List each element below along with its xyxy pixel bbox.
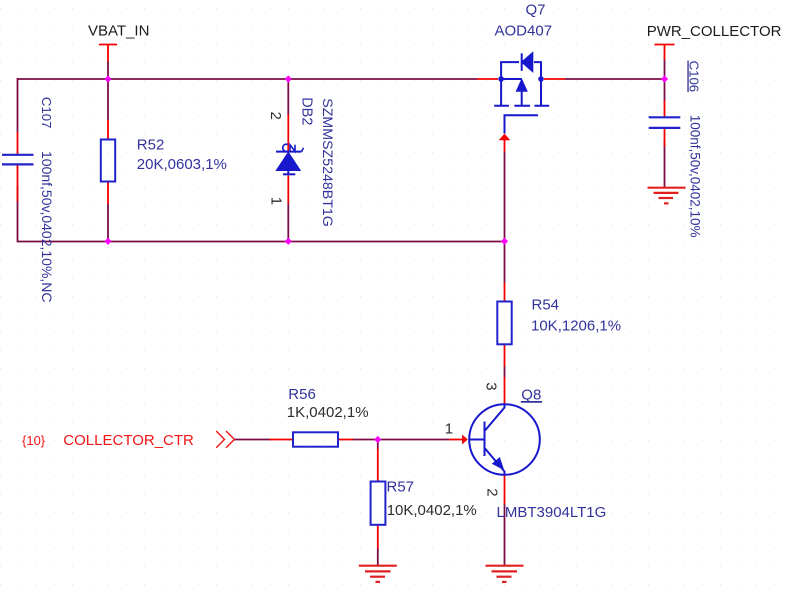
wire R52 column: [107, 79, 109, 241]
svg-text:10K,0402,1%: 10K,0402,1%: [387, 502, 477, 519]
Q8 base lead: [469, 439, 484, 441]
Q8 underline: [521, 401, 542, 403]
svg-text:100nf,50v,0402,10%: 100nf,50v,0402,10%: [688, 115, 703, 238]
node DB2 bottom: [285, 238, 292, 245]
mosfet Q7: [494, 53, 549, 133]
wire Q8 emitter to ground: [504, 504, 506, 566]
pin R54 top: [504, 283, 506, 302]
wire C106 column: [664, 79, 666, 187]
capacitor C107 plates: [2, 155, 34, 165]
pin R57 bottom: [377, 525, 379, 549]
ground at C106: [648, 188, 686, 204]
pin R52 bottom: [107, 182, 109, 205]
svg-text:R52: R52: [137, 136, 165, 153]
ground at R57: [359, 566, 397, 582]
resistor R54: [497, 302, 511, 345]
wire top bus left: [18, 78, 478, 80]
pin Q8 emitter: [504, 475, 506, 504]
zener internal stem: [287, 170, 289, 174]
wire PWR_COLLECTOR stub: [664, 59, 666, 79]
svg-text:2: 2: [483, 488, 500, 496]
svg-text:2: 2: [267, 112, 284, 120]
wire left vertical C107 branch: [17, 78, 19, 242]
Q8 emitter arrow: [492, 457, 504, 470]
svg-text:COLLECTOR_CTR: COLLECTOR_CTR: [63, 432, 194, 449]
Q7 junction dot drain: [538, 76, 544, 82]
resistor R56: [293, 432, 338, 446]
svg-text:1: 1: [445, 420, 453, 437]
svg-text:R57: R57: [387, 478, 415, 495]
svg-text:{10}: {10}: [22, 433, 46, 448]
node gate/R54: [501, 238, 508, 245]
svg-text:Q7: Q7: [526, 2, 546, 19]
node VBAT_IN/R52 top: [104, 75, 111, 82]
pin R52 top: [107, 120, 109, 140]
svg-text:PWR_COLLECTOR: PWR_COLLECTOR: [647, 23, 782, 40]
pin Q7 source: [477, 78, 498, 80]
pin R56 right: [338, 439, 353, 441]
wire R56 to node: [353, 439, 378, 441]
svg-text:SZMMSZ5248BT1G: SZMMSZ5248BT1G: [319, 98, 335, 227]
svg-text:DB2: DB2: [299, 97, 315, 125]
svg-text:100nf,50v,0402,10%,NC: 100nf,50v,0402,10%,NC: [39, 151, 55, 303]
Q7 body-diode cathode bar: [521, 53, 523, 71]
node C106/PWR_COLLECTOR: [661, 75, 668, 82]
resistor R52: [101, 140, 115, 182]
zener cathode bar: [276, 151, 302, 153]
wire top bus right: [565, 78, 665, 80]
wire node to R57: [377, 440, 379, 450]
svg-text:LMBT3904LT1G: LMBT3904LT1G: [497, 504, 607, 521]
Q7 body-diode triangle: [522, 53, 532, 70]
Q7 gate line: [505, 115, 539, 133]
wire node to Q8 base: [378, 439, 450, 441]
svg-text:20K,0603,1%: 20K,0603,1%: [137, 156, 227, 173]
Q7 drain vertical: [540, 79, 542, 106]
wire R57 to ground: [377, 548, 379, 565]
pin R56 left: [270, 439, 294, 441]
wire VBAT_IN stub: [107, 61, 109, 79]
zener N mark: [290, 145, 295, 152]
svg-text:R54: R54: [532, 297, 560, 314]
svg-text:C106: C106: [687, 61, 702, 93]
pin Q7 gate arrow: [504, 139, 506, 152]
zener diode DB2: [276, 144, 304, 174]
pin R54 bottom: [504, 344, 506, 366]
zener triangle: [277, 153, 299, 170]
pin DB2 cathode: [287, 115, 289, 151]
node R56/R57/base: [374, 436, 381, 443]
svg-text:AOD407: AOD407: [495, 22, 553, 39]
wire gate column Q7 to bottom bus: [504, 151, 506, 241]
pin Q8 collector: [504, 377, 506, 404]
ground at Q8: [486, 566, 524, 582]
pin R57 top: [377, 449, 379, 482]
svg-text:C107: C107: [39, 97, 54, 129]
Q8 circle: [469, 404, 540, 475]
PWR_COLLECTOR power tick: [655, 45, 675, 61]
Q8 collector diagonal: [485, 405, 505, 431]
Q7 internal horizontal: [501, 78, 522, 80]
wire port to R56: [234, 439, 270, 441]
resistor R57: [371, 482, 386, 525]
capacitor C106 plates: [649, 117, 681, 128]
node DB2 top: [285, 75, 292, 82]
wire R54 to Q8 collector: [504, 366, 506, 378]
Q7 channel bars: [494, 105, 549, 107]
wire bottom bus to R54: [504, 241, 506, 283]
Q7 source vertical: [500, 79, 502, 106]
svg-text:3: 3: [483, 382, 500, 390]
node R52 bottom: [104, 238, 111, 245]
pin Q8 base arrow: [449, 439, 462, 441]
svg-text:10K,1206,1%: 10K,1206,1%: [531, 318, 621, 335]
wire bottom bus: [18, 241, 505, 243]
zener anode tick: [283, 173, 295, 175]
transistor Q8: [469, 404, 540, 475]
pin C107 top: [17, 132, 19, 202]
svg-text:VBAT_IN: VBAT_IN: [88, 23, 149, 40]
zener left curl: [283, 144, 288, 151]
svg-text:R56: R56: [288, 386, 316, 403]
Q7 junction dot source: [498, 76, 504, 82]
VBAT_IN power tick: [99, 45, 117, 62]
svg-text:1: 1: [268, 197, 285, 205]
pin Q7 drain: [544, 78, 565, 80]
Q7 body vertical + arrow: [521, 91, 523, 106]
svg-text:1K,0402,1%: 1K,0402,1%: [287, 404, 369, 421]
svg-text:Q8: Q8: [521, 386, 541, 403]
zener right tail: [302, 148, 304, 152]
Q8 base bar: [484, 422, 486, 457]
wire DB2 column: [287, 79, 289, 241]
pin C106 top: [664, 101, 666, 147]
port COLLECTOR_CTR chevrons: [216, 431, 234, 448]
Q8 emitter diagonal: [485, 449, 505, 476]
pin DB2 anode: [287, 175, 289, 203]
Q7 body-diode loop: [501, 62, 541, 79]
